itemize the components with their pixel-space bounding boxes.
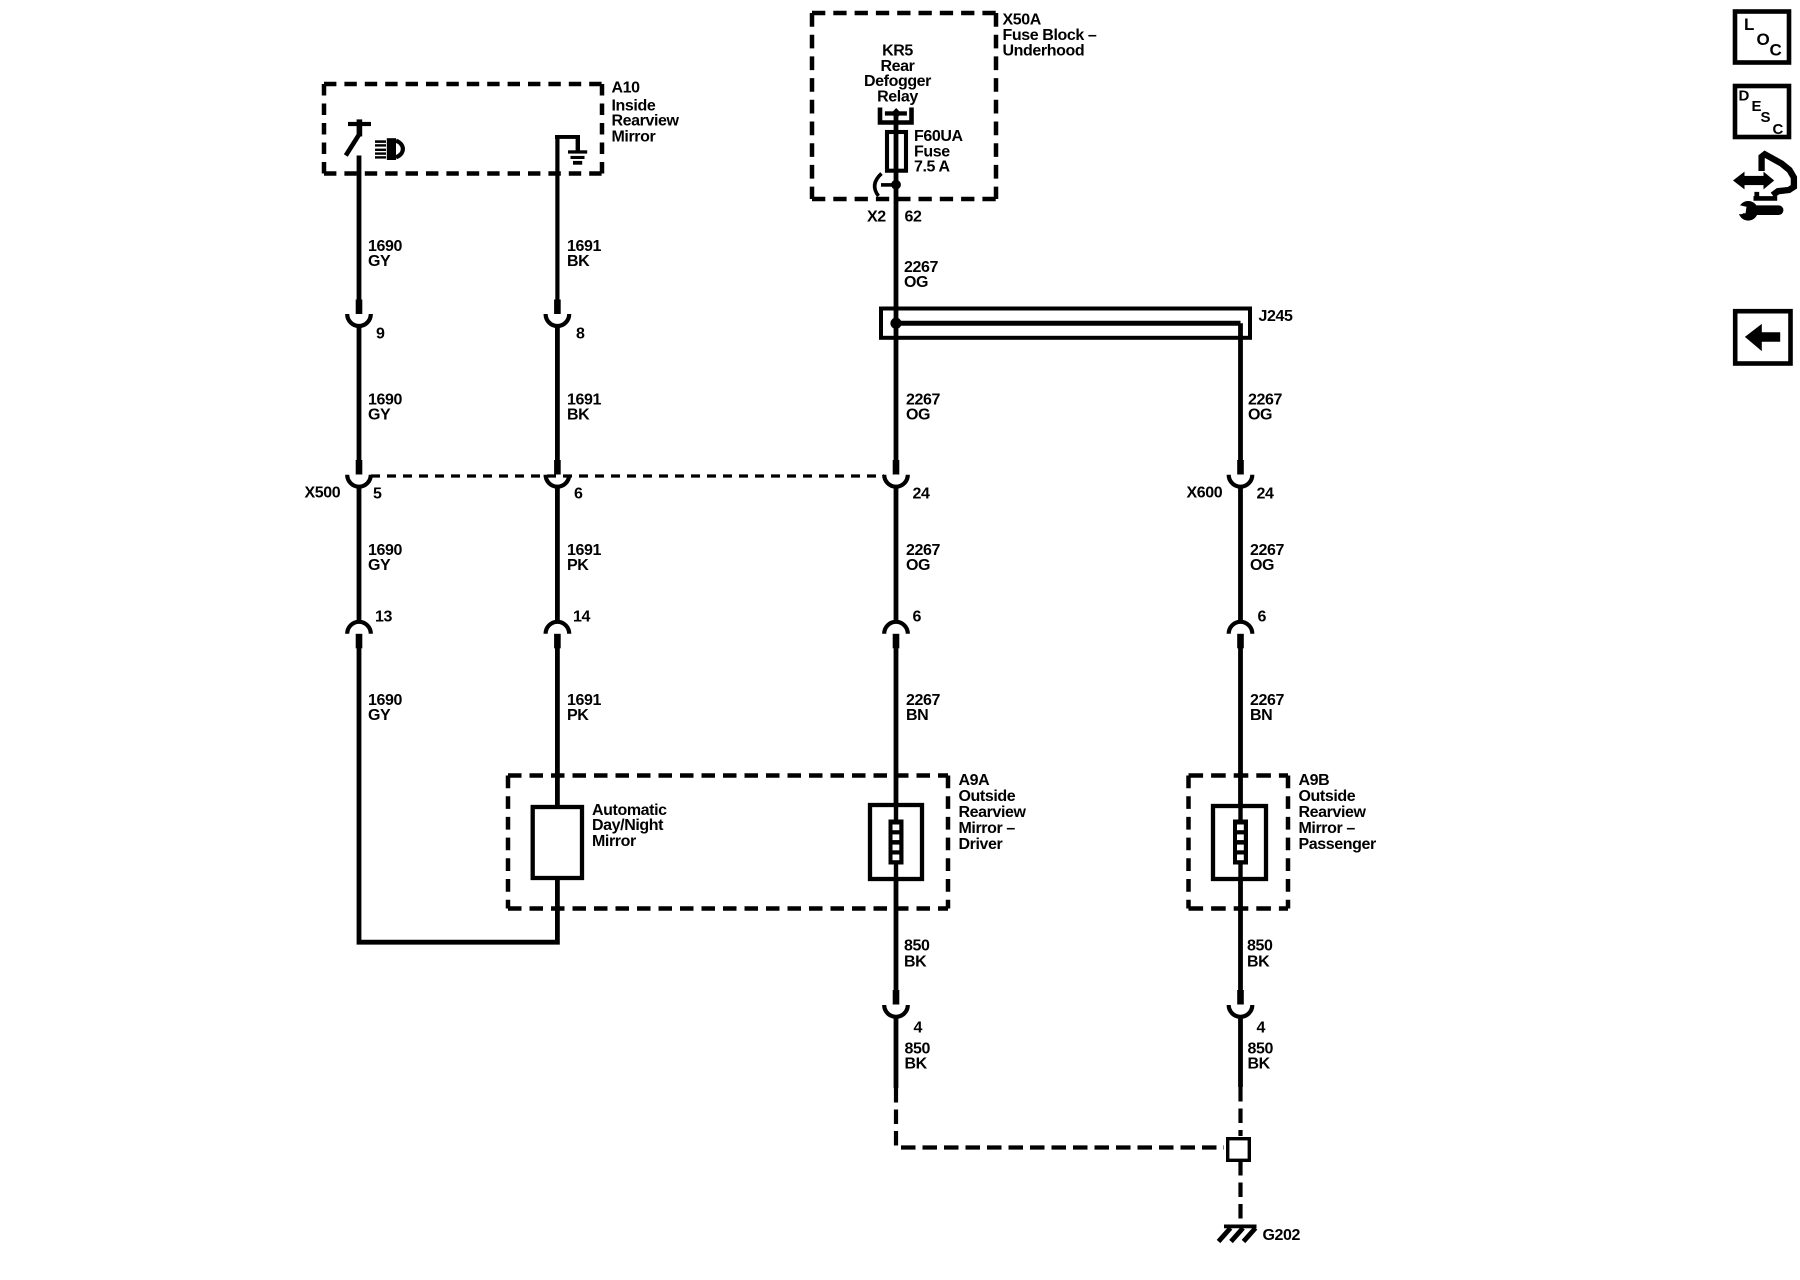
- swap-with-wrench icon: [1733, 154, 1794, 220]
- svg-text:GY: GY: [368, 707, 391, 724]
- connector pin 13 (wire 1): [347, 622, 371, 648]
- svg-text:Relay: Relay: [877, 89, 918, 106]
- svg-text:24: 24: [1257, 486, 1274, 503]
- wire label 850 BK: [1248, 1041, 1274, 1073]
- connector pin 4 (driver side): [884, 990, 908, 1017]
- svg-text:14: 14: [573, 609, 590, 626]
- dashed box: Automatic Day/Night Mirror with A9A outside mirror element: [508, 776, 948, 909]
- wire 2267 BN down to driver mirror: [894, 647, 899, 806]
- wire 2267 BN down to passenger mirror: [1238, 647, 1243, 806]
- svg-text:PK: PK: [567, 557, 589, 574]
- wire label 2267 OG: [1248, 392, 1282, 424]
- svg-text:A9A: A9A: [959, 772, 991, 789]
- wire label 1691 PK: [567, 542, 601, 574]
- in-line connector pin 8 (wire 2): [546, 300, 570, 327]
- wire label 1691 BK: [567, 238, 601, 270]
- X500 connector pin 6 (wire 2): [546, 460, 570, 487]
- wire 1691 PK X500 to connector pin 14: [555, 487, 560, 622]
- wire label 2267 OG: [906, 542, 940, 574]
- svg-text:O: O: [1757, 30, 1770, 49]
- svg-text:850: 850: [1247, 938, 1273, 955]
- wire 850 BK from A9A mirror down to connector pin 4: [894, 878, 899, 991]
- wire label 1690 GY: [368, 392, 402, 424]
- svg-text:OG: OG: [1250, 557, 1274, 574]
- wire label 1690 GY: [368, 542, 402, 574]
- svg-text:4: 4: [1257, 1019, 1266, 1036]
- A9B Outside Rearview Mirror Passenger dashed box: [1189, 776, 1289, 909]
- wire label 1690 GY: [368, 238, 402, 270]
- svg-text:BK: BK: [905, 1056, 928, 1073]
- ground symbol inside A10: [555, 135, 587, 165]
- svg-text:Outside: Outside: [1299, 788, 1356, 805]
- wire through A9A element: [894, 806, 898, 878]
- wire 1690 GY from A10 switch down to connector pin 9: [357, 156, 362, 301]
- KR5 Rear Defogger Relay label: [864, 42, 931, 105]
- fuse F60UA symbol: [887, 132, 906, 171]
- svg-text:GY: GY: [368, 407, 391, 424]
- svg-text:PK: PK: [567, 707, 589, 724]
- wire label 850 BK: [1247, 938, 1273, 971]
- svg-text:Rearview: Rearview: [612, 113, 680, 130]
- unspecified dashed wire from driver mirror ground lead to ring terminal: [896, 1088, 1224, 1148]
- svg-text:6: 6: [913, 609, 922, 626]
- connector pin 4 (passenger side): [1229, 990, 1253, 1017]
- wire 850 BK below connector 4 (passenger): [1238, 1017, 1243, 1087]
- svg-text:OG: OG: [904, 274, 928, 291]
- ground G202 symbol: [1219, 1226, 1257, 1241]
- A10 label: [612, 80, 680, 146]
- wire label 850 BK: [905, 1041, 931, 1073]
- A9A Outside Rearview Mirror Driver label: [959, 772, 1027, 853]
- svg-text:OG: OG: [906, 557, 930, 574]
- wire from relay through fuse down through J245 to X500 pin 24: [894, 113, 899, 461]
- wire 2267 OG X500 to connector pin 6 (driver): [894, 487, 899, 622]
- wire 1691 BK segment to X500 pin 6: [555, 326, 560, 461]
- svg-text:5: 5: [373, 486, 382, 503]
- dashed wire from ring terminal to G202 ground: [1238, 1161, 1242, 1221]
- svg-text:62: 62: [905, 208, 922, 225]
- svg-text:BK: BK: [567, 407, 590, 424]
- wire label 2267 OG: [1250, 542, 1284, 574]
- connector pin 6 (wire 3): [884, 622, 908, 649]
- LOC icon box (top right): [1735, 12, 1789, 63]
- wire label 1691 BK: [567, 392, 601, 424]
- ring terminal at ground: [1228, 1139, 1250, 1161]
- pin labels X2 62: [867, 208, 922, 225]
- svg-text:BK: BK: [1248, 1056, 1271, 1073]
- X500 in-line connector dashed line: [371, 474, 884, 477]
- X600 in-line connector pin 24 (wire 4): [1229, 460, 1253, 487]
- J245 splice pack: [881, 309, 1250, 338]
- svg-text:BK: BK: [904, 954, 927, 971]
- svg-text:BN: BN: [906, 707, 928, 724]
- svg-text:Mirror –: Mirror –: [1299, 820, 1356, 837]
- svg-text:X600: X600: [1187, 485, 1223, 502]
- svg-text:BN: BN: [1250, 707, 1272, 724]
- wire label 2267 BN: [906, 692, 940, 724]
- wire label 1690 GY: [368, 692, 402, 724]
- svg-text:Defogger: Defogger: [864, 73, 931, 90]
- X500 connector pin 24 (wire 3): [884, 460, 908, 487]
- wire 2267 OG from J245 down to X600 pin 24: [1238, 323, 1243, 461]
- svg-text:S: S: [1761, 109, 1771, 126]
- svg-text:J245: J245: [1259, 308, 1293, 325]
- svg-text:6: 6: [1258, 609, 1267, 626]
- svg-text:Mirror: Mirror: [612, 128, 656, 145]
- wire 2267 OG X600 to connector pin 6 (passenger): [1238, 487, 1243, 622]
- svg-text:GY: GY: [368, 557, 391, 574]
- svg-text:4: 4: [914, 1019, 923, 1036]
- wire label 2267 OG: [906, 392, 940, 424]
- wire through A9B element: [1238, 806, 1242, 878]
- svg-text:GY: GY: [368, 253, 391, 270]
- svg-text:8: 8: [576, 326, 585, 343]
- wire 1690 GY segment to X500 pin 5: [357, 326, 362, 461]
- wire 1691 PK down to day/night mirror: [555, 647, 560, 807]
- svg-text:Mirror –: Mirror –: [959, 820, 1016, 837]
- svg-text:X500: X500: [305, 485, 341, 502]
- X50A Fuse Block Underhood dashed box: [812, 13, 996, 199]
- svg-text:Fuse Block –: Fuse Block –: [1003, 27, 1097, 44]
- switch (map lamp switch) inside A10: [346, 119, 371, 155]
- back arrow icon box: [1735, 311, 1790, 363]
- svg-text:Rearview: Rearview: [1299, 804, 1367, 821]
- wire 1691 BK from A10 ground down to connector pin 8: [555, 135, 559, 301]
- svg-text:A9B: A9B: [1299, 772, 1330, 789]
- wire label 2267 BN: [1250, 692, 1284, 724]
- A10 Inside Rearview Mirror component dashed box: [324, 84, 602, 174]
- fuse label F60UA 7.5 A: [914, 128, 964, 176]
- svg-text:7.5 A: 7.5 A: [914, 159, 950, 176]
- svg-text:C: C: [1770, 40, 1782, 59]
- Automatic Day/Night Mirror label: [592, 802, 667, 850]
- X50A label: [1003, 11, 1097, 59]
- unspecified dashed wire from passenger mirror ground lead to ring terminal: [1238, 1087, 1242, 1136]
- wire 1690 GY down and right to day/night mirror: [359, 647, 557, 942]
- A9A mirror heater element outer box: [870, 805, 922, 879]
- wire label 2267 OG (fuse block to J245): [904, 259, 938, 291]
- A9B heater element: [1233, 820, 1248, 865]
- svg-text:C: C: [1773, 121, 1784, 138]
- svg-text:BK: BK: [567, 253, 590, 270]
- connector pin 14 (wire 2): [546, 622, 570, 649]
- svg-text:Passenger: Passenger: [1299, 836, 1377, 853]
- svg-text:OG: OG: [1248, 407, 1272, 424]
- svg-text:BK: BK: [1247, 954, 1270, 971]
- DESC icon box: [1735, 86, 1789, 138]
- svg-text:G202: G202: [1263, 1227, 1301, 1244]
- wire 850 BK below connector 4 (driver): [894, 1017, 899, 1088]
- svg-text:Outside: Outside: [959, 788, 1016, 805]
- svg-text:L: L: [1744, 15, 1754, 34]
- Automatic Day/Night Mirror box: [533, 807, 582, 878]
- svg-text:Day/Night: Day/Night: [592, 817, 664, 834]
- svg-text:KR5: KR5: [882, 42, 913, 59]
- svg-text:13: 13: [375, 609, 392, 626]
- svg-text:9: 9: [376, 326, 385, 343]
- svg-text:24: 24: [913, 486, 930, 503]
- svg-text:Underhood: Underhood: [1003, 42, 1085, 59]
- svg-text:Mirror: Mirror: [592, 833, 636, 850]
- svg-text:6: 6: [574, 486, 583, 503]
- svg-text:OG: OG: [906, 407, 930, 424]
- svg-text:Rearview: Rearview: [959, 804, 1027, 821]
- svg-text:A10: A10: [612, 80, 641, 97]
- connector pin 6 (wire 4): [1229, 622, 1253, 649]
- svg-text:D: D: [1739, 88, 1750, 105]
- in-line connector pin 9 (wire 1): [347, 300, 371, 326]
- lamp symbol inside A10: [375, 138, 403, 160]
- svg-text:X2: X2: [867, 208, 886, 225]
- A9B Outside Rearview Mirror Passenger label: [1299, 772, 1377, 853]
- wire label 1691 PK: [567, 692, 601, 724]
- A9B mirror heater element outer box: [1213, 806, 1266, 879]
- wire label 850 BK: [904, 938, 930, 971]
- svg-text:850: 850: [904, 938, 930, 955]
- svg-text:Driver: Driver: [959, 836, 1003, 853]
- terminal clip symbol below fuse: [875, 174, 901, 197]
- wire 850 BK from A9B mirror down to connector pin 4: [1238, 878, 1243, 991]
- wire 1690 GY X500 to connector pin 13: [357, 487, 362, 622]
- X500 connector pin 5 (wire 1): [347, 460, 371, 487]
- relay KR5 contact symbol: [880, 108, 912, 123]
- A9A heater element: [889, 820, 904, 865]
